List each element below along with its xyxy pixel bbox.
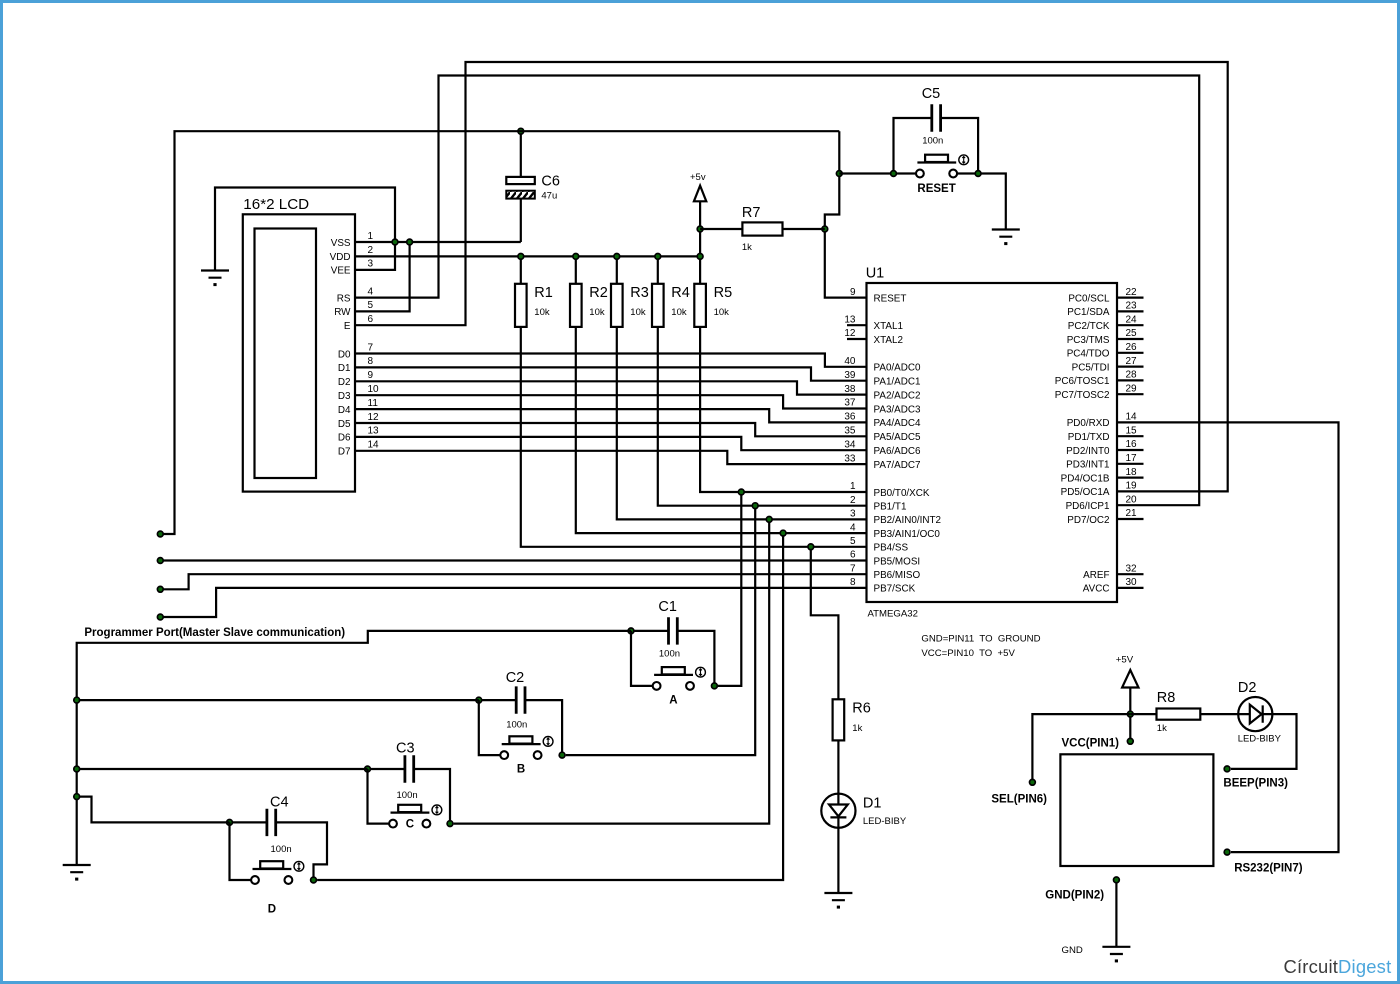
junction button B right — [559, 752, 565, 758]
ground connector ground — [1102, 947, 1130, 963]
svg-text:26: 26 — [1126, 342, 1138, 353]
wire VSS branch to LCD pin3 VEE — [355, 242, 395, 270]
power +5V (bottom right) — [1116, 655, 1139, 688]
junction VDD rail / R4 — [655, 254, 661, 260]
connector block (bottom right) — [1060, 754, 1213, 866]
svg-text:D6: D6 — [338, 433, 351, 444]
junction C4/button D left — [227, 820, 233, 826]
capacitor C4 (100n) — [267, 795, 292, 855]
svg-text:XTAL1: XTAL1 — [874, 321, 904, 332]
junction VDD rail / R1 — [518, 254, 524, 260]
svg-text:100n: 100n — [659, 648, 680, 659]
junction PB0/riser — [738, 489, 744, 495]
wire R8 right lead to D2 — [1200, 713, 1238, 715]
svg-text:B: B — [517, 764, 525, 776]
svg-text:5: 5 — [368, 300, 374, 311]
resistor R4 (10k) — [652, 284, 690, 327]
svg-text:5: 5 — [850, 536, 856, 547]
svg-text:PA2/ADC2: PA2/ADC2 — [874, 390, 921, 401]
wire D1 net: LCD pin8 to U1 PA1 — [355, 367, 867, 380]
svg-text:17: 17 — [1126, 453, 1138, 464]
ground RESET ground — [992, 230, 1020, 246]
svg-text:100n: 100n — [922, 135, 943, 146]
wire R1 bottom lead to U1 PB4 line — [521, 327, 867, 547]
LCD module 16*2 LCD — [243, 196, 355, 492]
svg-text:D5: D5 — [338, 419, 351, 430]
wire R2 bottom lead to U1 PB3 line — [576, 327, 867, 533]
junction button A right — [712, 683, 718, 689]
wire R7 left lead — [700, 228, 742, 230]
svg-text:GND=PIN11 TO GROUND: GND=PIN11 TO GROUND — [921, 634, 1040, 645]
svg-text:25: 25 — [1126, 328, 1138, 339]
wire +5V stem to VCC terminal — [1129, 688, 1131, 742]
wire PB1 riser to button B — [566, 506, 756, 755]
wire U1 pin 21 stub — [1117, 518, 1144, 520]
node RS232(PIN7) terminal — [1224, 849, 1230, 855]
wire C1 ground wire — [77, 631, 631, 865]
svg-text:C5: C5 — [922, 86, 941, 102]
svg-text:PC7/TOSC2: PC7/TOSC2 — [1055, 390, 1110, 401]
svg-text:PD0/RXD: PD0/RXD — [1067, 418, 1110, 429]
wire R1 top lead to VDD rail — [520, 256, 522, 283]
junction +5V/R8/SEL junction — [1127, 711, 1133, 717]
wire U1 pin 16 stub — [1117, 449, 1144, 451]
svg-text:D1: D1 — [338, 363, 351, 374]
svg-text:D7: D7 — [338, 447, 351, 458]
wire PB0 riser to button A — [718, 492, 741, 686]
svg-text:AVCC: AVCC — [1083, 584, 1110, 595]
svg-text:PA1/ADC1: PA1/ADC1 — [874, 377, 922, 388]
junction VDD rail / R3 — [614, 254, 620, 260]
svg-text:13: 13 — [368, 426, 380, 437]
svg-text:R4: R4 — [671, 285, 690, 301]
wire RS net: LCD pin4 RS to U1 pin20 PD6/ICP1 — [355, 76, 1199, 506]
wire MISO net: programmer port to U1 pin7 PB6 — [160, 574, 866, 589]
svg-text:C: C — [406, 819, 414, 831]
svg-text:PD3/INT1: PD3/INT1 — [1066, 460, 1110, 471]
svg-text:11: 11 — [368, 398, 379, 409]
svg-text:PD4/OC1B: PD4/OC1B — [1061, 473, 1110, 484]
svg-text:PC0/SCL: PC0/SCL — [1068, 293, 1110, 304]
svg-text:6: 6 — [850, 550, 856, 561]
wire C3 left wire — [368, 768, 405, 770]
svg-text:10k: 10k — [534, 307, 550, 318]
svg-text:VSS: VSS — [331, 238, 351, 249]
ground D1 ground — [824, 893, 852, 909]
push button D — [251, 861, 304, 915]
svg-text:PA6/ADC6: PA6/ADC6 — [874, 446, 922, 457]
push button B — [500, 736, 553, 775]
wire C5 right lead — [941, 118, 979, 174]
svg-text:13: 13 — [844, 314, 856, 325]
svg-text:PB6/MISO: PB6/MISO — [874, 570, 921, 581]
wire C3 ground wire — [77, 768, 368, 770]
wire U1 pin 23 stub — [1117, 310, 1144, 312]
node programmer port MISO terminal — [157, 586, 163, 592]
svg-text:RESET: RESET — [874, 293, 907, 304]
svg-text:37: 37 — [844, 398, 856, 409]
wire D1 cathode to ground — [837, 828, 839, 893]
svg-text:9: 9 — [850, 287, 856, 298]
svg-text:6: 6 — [368, 314, 374, 325]
svg-text:7: 7 — [368, 342, 374, 353]
junction C1/button A left — [628, 628, 634, 634]
wire D7 net: LCD pin14 to U1 PA7 — [355, 451, 867, 464]
svg-text:PD5/OC1A: PD5/OC1A — [1061, 487, 1110, 498]
svg-text:C6: C6 — [541, 174, 560, 190]
wire U1 pin 15 stub — [1117, 435, 1144, 437]
wire U1 pin 24 stub — [1117, 324, 1144, 326]
svg-text:GND(PIN2): GND(PIN2) — [1045, 890, 1104, 902]
wire D0 net: LCD pin7 to U1 PA0 — [355, 354, 867, 367]
junction C6/+5V line — [518, 128, 524, 134]
svg-text:1: 1 — [368, 231, 374, 242]
wire R6 to D1 — [837, 740, 839, 793]
wire D2 to BEEP terminal — [1231, 714, 1297, 769]
junction VSS/VEE/ground — [392, 239, 398, 245]
wire C2 left wire — [479, 699, 516, 701]
wire C5 left lead — [894, 118, 932, 174]
svg-text:GND: GND — [1062, 945, 1083, 956]
wire C6 top lead to +5V line — [520, 131, 522, 177]
svg-text:21: 21 — [1126, 508, 1138, 519]
wire C2 right wire to button B right — [525, 700, 562, 755]
wire C3 right wire to button C right — [414, 769, 450, 824]
capacitor C1 (100n) — [658, 599, 680, 659]
svg-text:18: 18 — [1126, 467, 1138, 478]
svg-text:PC3/TMS: PC3/TMS — [1067, 335, 1110, 346]
svg-text:PA0/ADC0: PA0/ADC0 — [874, 363, 922, 374]
svg-text:30: 30 — [1126, 577, 1138, 588]
wire button A left lead — [631, 631, 653, 686]
push button C — [389, 805, 442, 831]
wire PB3 riser to button D — [317, 533, 783, 880]
svg-text:D3: D3 — [338, 391, 351, 402]
capacitor C5 (100n) — [922, 86, 944, 146]
wire U1 pin 22 stub — [1117, 297, 1144, 299]
junction C5 right/button — [975, 171, 981, 177]
svg-text:23: 23 — [1126, 301, 1138, 312]
wire R3 top lead to VDD rail — [616, 256, 618, 283]
wire +5V distribution line — [160, 131, 839, 534]
junction PB1/riser — [752, 503, 758, 509]
svg-text:PD2/INT0: PD2/INT0 — [1066, 446, 1110, 457]
svg-text:PD7/OC2: PD7/OC2 — [1067, 515, 1109, 526]
wire C4 left wire — [230, 821, 267, 823]
wire U1 pin 13 stub — [847, 324, 867, 326]
svg-text:33: 33 — [844, 453, 856, 464]
svg-text:PB0/T0/XCK: PB0/T0/XCK — [874, 488, 930, 499]
svg-text:D4: D4 — [338, 405, 351, 416]
svg-text:CírcuitDigest: CírcuitDigest — [1284, 956, 1392, 977]
wire U1 pin 28 stub — [1117, 379, 1144, 381]
svg-text:R7: R7 — [742, 205, 761, 221]
svg-text:10k: 10k — [589, 307, 605, 318]
node programmer port MOSI terminal — [157, 558, 163, 564]
wire R5 bottom lead to U1 PB0 line — [700, 327, 866, 492]
wire VSS branch to LCD pin5 RW — [355, 242, 410, 311]
wire D5 net: LCD pin12 to U1 PA5 — [355, 423, 867, 436]
node GND(PIN2) terminal — [1114, 877, 1120, 883]
wire R3 bottom lead to U1 PB2 line — [617, 327, 867, 520]
svg-text:R3: R3 — [630, 285, 649, 301]
svg-text:3: 3 — [850, 509, 856, 520]
svg-text:PB2/AIN0/INT2: PB2/AIN0/INT2 — [874, 515, 942, 526]
junction VDD rail / R2 — [573, 254, 579, 260]
resistor R8 (1k) — [1157, 690, 1201, 734]
wire button B left lead — [479, 700, 501, 755]
svg-text:C2: C2 — [506, 670, 525, 686]
svg-text:PC2/TCK: PC2/TCK — [1068, 321, 1110, 332]
svg-text:19: 19 — [1126, 481, 1138, 492]
wire U1 pin 17 stub — [1117, 463, 1144, 465]
wire VSS net: LCD pin1 to C6 bottom — [355, 241, 521, 243]
svg-text:LED-BIBY: LED-BIBY — [863, 816, 907, 827]
svg-text:10k: 10k — [630, 307, 646, 318]
wire RS232 net: terminal to U1 pin14 PD0/RXD — [1117, 422, 1339, 852]
node VCC(PIN1) terminal — [1127, 738, 1133, 744]
svg-text:4: 4 — [368, 286, 374, 297]
svg-text:100n: 100n — [271, 844, 292, 855]
wire VDD rail: LCD pin2 to +5v stem — [355, 255, 700, 257]
wire button D left lead — [230, 822, 252, 880]
svg-text:XTAL2: XTAL2 — [874, 335, 903, 346]
svg-text:7: 7 — [850, 563, 856, 574]
svg-text:PC4/TDO: PC4/TDO — [1067, 349, 1110, 360]
svg-text:16: 16 — [1126, 439, 1138, 450]
wire U1 pin 30 stub — [1117, 587, 1144, 589]
svg-text:15: 15 — [1126, 425, 1138, 436]
wire D3 net: LCD pin10 to U1 PA3 — [355, 395, 867, 408]
svg-text:47u: 47u — [541, 191, 557, 202]
svg-text:PA7/ADC7: PA7/ADC7 — [874, 460, 921, 471]
svg-text:29: 29 — [1126, 383, 1138, 394]
resistor R2 (10k) — [570, 284, 608, 327]
svg-text:Programmer Port(Master Slave c: Programmer Port(Master Slave communicati… — [84, 627, 345, 639]
svg-text:PB1/T1: PB1/T1 — [874, 502, 907, 513]
svg-text:PD1/TXD: PD1/TXD — [1068, 432, 1110, 443]
svg-text:27: 27 — [1126, 356, 1138, 367]
svg-text:PA5/ADC5: PA5/ADC5 — [874, 432, 922, 443]
svg-text:10k: 10k — [714, 307, 730, 318]
capacitor C6 (47u electrolytic) — [506, 174, 560, 202]
svg-text:D2: D2 — [338, 377, 351, 388]
wire C4 right wire to button D right — [276, 822, 327, 880]
LED D1 (LED-BIBY) — [821, 794, 907, 828]
svg-text:PB3/AIN1/OC0: PB3/AIN1/OC0 — [874, 529, 941, 540]
svg-text:C1: C1 — [658, 599, 677, 615]
wire U1 pin 25 stub — [1117, 338, 1144, 340]
svg-text:1k: 1k — [742, 242, 752, 253]
svg-text:R5: R5 — [714, 285, 733, 301]
node BEEP(PIN3) terminal — [1224, 766, 1230, 772]
svg-text:12: 12 — [844, 328, 856, 339]
svg-text:10: 10 — [368, 384, 380, 395]
wire D6 net: LCD pin13 to U1 PA6 — [355, 437, 867, 450]
wire R8 left lead — [1130, 713, 1156, 715]
svg-text:8: 8 — [368, 356, 374, 367]
svg-text:+5V: +5V — [1116, 655, 1134, 666]
svg-text:28: 28 — [1126, 370, 1138, 381]
resistor R3 (10k) — [611, 284, 649, 327]
resistor R7 (1k) — [742, 205, 783, 253]
svg-text:BEEP(PIN3): BEEP(PIN3) — [1223, 778, 1288, 790]
wire U1 pin 12 stub — [847, 338, 867, 340]
push button RESET — [916, 155, 969, 195]
junction VDD rail / R5 — [697, 254, 703, 260]
junction C5 left/button — [891, 171, 897, 177]
ground buttons ground — [63, 865, 91, 881]
svg-text:VEE: VEE — [331, 266, 351, 277]
svg-text:35: 35 — [844, 426, 856, 437]
junction RESET/R7 — [822, 226, 828, 232]
wire RESET button right wire — [957, 174, 1006, 230]
wire U1 pin 29 stub — [1117, 393, 1144, 395]
push button A — [653, 667, 706, 706]
svg-text:14: 14 — [1126, 412, 1138, 423]
svg-text:38: 38 — [844, 384, 856, 395]
svg-text:100n: 100n — [506, 720, 527, 731]
svg-text:SEL(PIN6): SEL(PIN6) — [991, 794, 1047, 806]
svg-text:R6: R6 — [852, 701, 871, 717]
svg-text:PD6/ICP1: PD6/ICP1 — [1066, 501, 1110, 512]
svg-text:C3: C3 — [396, 741, 415, 757]
svg-text:A: A — [669, 694, 677, 706]
svg-text:D2: D2 — [1238, 680, 1257, 696]
wire U1 pin 27 stub — [1117, 366, 1144, 368]
svg-text:PC5/TDI: PC5/TDI — [1072, 362, 1110, 373]
svg-text:ATMEGA32: ATMEGA32 — [868, 609, 918, 620]
wire R4 bottom lead to U1 PB1 line — [658, 327, 867, 506]
svg-text:R8: R8 — [1157, 690, 1176, 706]
wire E net: LCD pin6 E to U1 pin19 PD5/OC1A — [355, 62, 1228, 491]
wire R7 right lead — [783, 228, 825, 230]
svg-text:PA4/ADC4: PA4/ADC4 — [874, 418, 922, 429]
svg-text:PC1/SDA: PC1/SDA — [1067, 307, 1110, 318]
wire U1 pin 26 stub — [1117, 352, 1144, 354]
svg-text:D: D — [268, 904, 276, 916]
junction rail/C2 — [74, 697, 80, 703]
wire C4 ground wire — [77, 797, 230, 823]
capacitor C2 (100n) — [506, 670, 528, 730]
wire PB2 riser to button C — [454, 519, 770, 823]
junction rail/C4 — [74, 794, 80, 800]
svg-text:RW: RW — [334, 307, 351, 318]
svg-text:PB5/MOSI: PB5/MOSI — [874, 556, 921, 567]
svg-text:VCC=PIN10 TO +5V: VCC=PIN10 TO +5V — [921, 648, 1015, 659]
svg-text:R1: R1 — [534, 285, 553, 301]
wire R4 top lead to VDD rail — [657, 256, 659, 283]
wire VSS branch to LCD ground — [215, 188, 395, 271]
wire RESET button left wire — [839, 172, 916, 174]
wire R2 top lead to VDD rail — [575, 256, 577, 283]
node SEL(PIN6) terminal — [1030, 779, 1036, 785]
svg-text:D1: D1 — [863, 796, 882, 812]
svg-text:AREF: AREF — [1083, 570, 1109, 581]
wire D2 net: LCD pin9 to U1 PA2 — [355, 381, 867, 394]
wire +5V to RESET network — [825, 131, 867, 297]
wire MOSI net: programmer port to U1 pin6 PB5 — [160, 559, 866, 561]
svg-text:10k: 10k — [671, 307, 687, 318]
svg-text:PC6/TOSC1: PC6/TOSC1 — [1055, 376, 1110, 387]
wire button C left lead — [368, 769, 390, 824]
svg-text:VCC(PIN1): VCC(PIN1) — [1062, 738, 1120, 750]
wire SCK net: programmer port to U1 pin8 PB7 — [160, 588, 866, 617]
svg-text:R2: R2 — [589, 285, 608, 301]
svg-text:1k: 1k — [1157, 723, 1167, 734]
svg-text:RS: RS — [337, 293, 351, 304]
svg-text:3: 3 — [368, 259, 374, 270]
wire +5v stem through R7 junction to VDD rail and R1 top — [699, 201, 701, 283]
junction PB4/riser — [808, 544, 814, 550]
resistor R1 (10k) — [515, 284, 553, 327]
svg-text:D0: D0 — [338, 349, 351, 360]
wire C1 left wire — [631, 630, 669, 632]
svg-text:VDD: VDD — [330, 252, 351, 263]
svg-text:24: 24 — [1126, 314, 1138, 325]
svg-text:36: 36 — [844, 412, 856, 423]
junction RESET button branch — [836, 171, 842, 177]
svg-text:40: 40 — [844, 356, 856, 367]
wire C2 ground wire — [77, 699, 479, 701]
junction C2/button B left — [476, 697, 482, 703]
svg-text:39: 39 — [844, 370, 856, 381]
node programmer port SCK terminal — [157, 614, 163, 620]
node programmer port +5V terminal — [157, 531, 163, 537]
svg-text:16*2 LCD: 16*2 LCD — [243, 196, 309, 213]
svg-text:PB7/SCK: PB7/SCK — [874, 584, 916, 595]
junction VSS/RW — [407, 239, 413, 245]
svg-text:+5v: +5v — [690, 172, 706, 183]
svg-text:1: 1 — [850, 481, 856, 492]
svg-text:2: 2 — [850, 495, 856, 506]
svg-text:E: E — [344, 321, 351, 332]
svg-text:12: 12 — [368, 412, 380, 423]
svg-text:9: 9 — [368, 370, 374, 381]
svg-text:34: 34 — [844, 439, 856, 450]
svg-text:RS232(PIN7): RS232(PIN7) — [1234, 863, 1303, 875]
junction PB2/riser — [766, 517, 772, 523]
resistor R5 (10k) — [694, 284, 732, 327]
svg-text:U1: U1 — [866, 266, 885, 282]
svg-text:4: 4 — [850, 522, 856, 533]
svg-text:2: 2 — [368, 245, 374, 256]
svg-text:LED-BIBY: LED-BIBY — [1238, 734, 1282, 745]
wire GND(PIN2) wire to ground — [1115, 884, 1117, 947]
svg-text:RESET: RESET — [917, 183, 955, 195]
junction button C right — [447, 821, 453, 827]
wire C6 bottom lead to VSS net — [520, 199, 522, 242]
power +5v (top) — [690, 172, 706, 201]
svg-text:PA3/ADC3: PA3/ADC3 — [874, 404, 922, 415]
junction button D right — [311, 877, 317, 883]
wire U1 pin 32 stub — [1117, 573, 1144, 575]
junction PB3/riser — [780, 530, 786, 536]
svg-text:C4: C4 — [270, 795, 289, 811]
svg-text:32: 32 — [1126, 563, 1138, 574]
svg-text:100n: 100n — [397, 790, 418, 801]
wire U1 pin 18 stub — [1117, 477, 1144, 479]
wire D4 net: LCD pin11 to U1 PA4 — [355, 409, 867, 422]
resistor R6 (1k) — [833, 699, 871, 740]
wire SEL wire — [1032, 714, 1130, 782]
wire PB4 riser to R6 — [811, 547, 839, 700]
svg-text:14: 14 — [368, 440, 380, 451]
junction +5v/R7 — [697, 226, 703, 232]
svg-text:22: 22 — [1126, 287, 1138, 298]
svg-text:1k: 1k — [852, 723, 862, 734]
capacitor C3 (100n) — [396, 741, 418, 801]
